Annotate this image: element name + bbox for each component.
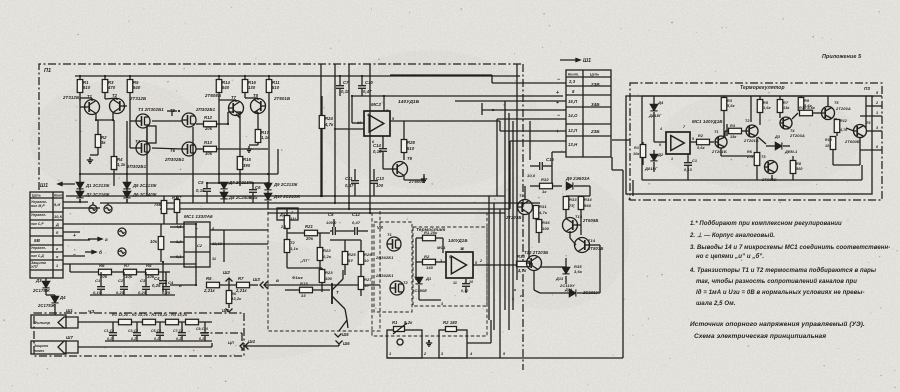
svg-text:30к: 30к	[205, 151, 213, 156]
diode D3 2S175Zh	[42, 281, 49, 287]
wire R14 column	[218, 100, 220, 183]
resistor R30 4.7k	[517, 261, 530, 267]
filter label box	[31, 315, 66, 328]
connector Sh3 arrow down	[226, 309, 233, 313]
diode D6 2S240Zh	[123, 191, 130, 197]
op-amp MC2 140UD1B	[364, 111, 390, 136]
resistor R11*	[174, 200, 180, 213]
svg-text:100: 100	[376, 183, 384, 188]
resistor R36 100	[536, 220, 542, 233]
ground below R2	[87, 157, 93, 163]
wire T1 base link	[80, 106, 86, 108]
svg-text:5В: 5В	[34, 238, 41, 243]
svg-text:2Т605Б: 2Т605Б	[761, 177, 777, 182]
resistor R19 33	[300, 287, 313, 293]
wire vertical riser x349	[348, 64, 350, 209]
svg-text:VR: VR	[377, 225, 383, 230]
block Termostat outer dashed box	[372, 213, 487, 336]
resistor R8 10k	[146, 269, 159, 275]
svg-text:Д: Д	[55, 223, 59, 227]
svg-text:ЦЛ: ЦЛ	[228, 340, 234, 345]
diode D2 D818G	[650, 154, 657, 160]
svg-text:1: 1	[671, 157, 673, 161]
svg-text:Т2: Т2	[112, 93, 118, 98]
svg-text:1,1к: 1,1к	[117, 162, 126, 167]
resistor R23 100	[319, 270, 325, 283]
wire r25 r26 top	[345, 239, 361, 241]
resistor R11* center	[284, 216, 290, 229]
svg-text:10к: 10к	[633, 152, 640, 156]
svg-text:2П302Б1: 2П302Б1	[375, 273, 394, 278]
svg-text:14,О: 14,О	[568, 113, 578, 118]
wire long 285 to thermostat	[285, 284, 380, 286]
svg-text:−: −	[557, 77, 560, 83]
svg-text:15,П: 15,П	[568, 99, 578, 104]
svg-text:12,П: 12,П	[568, 128, 578, 133]
svg-text:1.* Подбирают при комплексно: 1.* Подбирают при комплексном регулирова…	[690, 220, 842, 227]
wire bottom bus Sh4	[243, 345, 339, 347]
svg-text:С2: С2	[118, 278, 124, 283]
svg-text:Т14: Т14	[588, 238, 596, 243]
svg-text:С10: С10	[365, 80, 374, 85]
svg-text:2С175Ж: 2С175Ж	[37, 303, 56, 308]
wire mid bus a	[66, 195, 505, 197]
svg-text:УПТ: УПТ	[31, 265, 39, 269]
svg-text:2,3: 2,3	[568, 79, 576, 84]
resistor R28 510	[401, 140, 407, 153]
wire top bus P3	[642, 95, 868, 97]
svg-text:R8: R8	[796, 162, 802, 166]
diode D7 2S213Zh	[220, 182, 227, 188]
resistor R3 18.2k	[166, 319, 179, 325]
svg-text:С5,С6: С5,С6	[151, 329, 161, 333]
resistor R32 1k	[540, 183, 553, 189]
svg-text:9: 9	[659, 143, 661, 147]
transistor T2 2T201B P3	[746, 125, 758, 137]
svg-text:П3: П3	[864, 86, 870, 91]
wire to table rows lower	[529, 135, 531, 160]
resistor R2 3k	[95, 135, 101, 148]
arrow node a	[88, 237, 102, 240]
svg-text:0,47: 0,47	[345, 183, 354, 188]
svg-text:34Б: 34Б	[591, 102, 600, 107]
capacitor C15 10.0	[540, 162, 543, 170]
wire right section links	[576, 224, 581, 226]
transistor T8 2T601B	[251, 99, 266, 114]
svg-text:R10 5,6к: R10 5,6к	[799, 106, 816, 110]
svg-text:С13: С13	[376, 176, 385, 181]
svg-text:2П302Б1: 2П302Б1	[126, 164, 147, 169]
svg-text:Т7: Т7	[231, 95, 237, 100]
svg-text:0,25: 0,25	[152, 283, 161, 288]
wire r chain	[70, 271, 99, 273]
wire T4 T6 link rectangle	[147, 126, 156, 143]
transistor T7 2T608B	[229, 101, 244, 116]
svg-text:560: 560	[584, 203, 592, 208]
resistor R7 2.21k	[237, 282, 250, 288]
svg-text:Т5: Т5	[834, 101, 839, 105]
svg-text:10к: 10к	[825, 144, 831, 148]
svg-text:2,21к: 2,21к	[203, 288, 216, 293]
transistor T11 2T203B	[518, 200, 533, 215]
svg-text:Т: Т	[195, 227, 198, 232]
svg-text:Ш2: Ш2	[223, 270, 230, 275]
svg-text:510: 510	[407, 146, 415, 151]
svg-text:0,15: 0,15	[341, 89, 350, 94]
resistor R33 75	[563, 197, 569, 210]
svg-text:10,К: 10,К	[54, 215, 63, 219]
svg-text:140: 140	[426, 265, 434, 270]
svg-text:С9,С10: С9,С10	[196, 327, 208, 331]
block Termoregulator dash-dot box	[630, 83, 882, 200]
wire opamp input 2	[335, 128, 364, 130]
bypass cap tick	[481, 103, 483, 115]
svg-text:11: 11	[212, 257, 216, 261]
resistor R21 20k	[305, 230, 318, 236]
svg-text:0,13: 0,13	[684, 168, 693, 172]
svg-text:2Т201Б: 2Т201Б	[711, 149, 727, 154]
svg-text:470: 470	[107, 85, 116, 90]
svg-text:Т9: Т9	[407, 156, 413, 161]
svg-text:R6: R6	[99, 263, 105, 268]
svg-text:С1: С1	[95, 278, 101, 283]
connector table Sh1	[566, 70, 611, 157]
svg-text:11*: 11*	[290, 216, 296, 221]
svg-text:4. Транзисторы Т1 и Т2 термо: 4. Транзисторы Т1 и Т2 термостата подбир…	[689, 267, 877, 274]
wire mid bus d	[268, 212, 505, 214]
resistor R14 10k	[830, 137, 836, 150]
svg-text:Ш3: Ш3	[222, 308, 229, 313]
svg-text:100,0: 100,0	[326, 220, 337, 225]
svg-text:R1 20к: R1 20к	[424, 230, 438, 235]
svg-text:С7,С8: С7,С8	[173, 329, 183, 333]
svg-text:R36: R36	[542, 220, 550, 225]
transistor T1 2T312B	[85, 100, 100, 115]
fet T2 thermostat	[390, 281, 404, 295]
transistor T5 2T203A	[822, 107, 835, 120]
resistor R22 8.2k	[317, 248, 323, 261]
svg-text:С2: С2	[197, 244, 203, 248]
resistor R1 20k thermostat	[423, 235, 436, 241]
block boundary P1 (dash-dot frame)	[39, 64, 523, 370]
svg-text:Т6: Т6	[866, 121, 871, 125]
svg-text:2,21к: 2,21к	[235, 288, 248, 293]
svg-text:R25: R25	[348, 252, 356, 257]
capacitor C1C2 0.2	[109, 333, 117, 336]
connector Sh5 Sh6 arrows	[335, 334, 342, 338]
svg-text:С6: С6	[255, 185, 261, 190]
diode D1 2S213Zh	[76, 182, 83, 188]
svg-text:г: г	[56, 247, 58, 251]
svg-text:1: 1	[461, 247, 463, 251]
svg-text:2Т203А: 2Т203А	[835, 106, 851, 111]
wire T7 T8 emitters	[240, 112, 242, 114]
svg-text:Д818Г: Д818Г	[648, 113, 662, 118]
wire T3 T5 drain drops	[146, 127, 148, 196]
svg-text:2Т312Б: 2Т312Б	[129, 96, 146, 101]
svg-text:но с цепями „и” и „б”.: но с цепями „и” и „б”.	[696, 253, 764, 260]
resistor R3 5.6k P3	[721, 98, 727, 111]
svg-text:Т3 2П302Б1: Т3 2П302Б1	[138, 107, 164, 112]
svg-text:R4: R4	[730, 124, 736, 128]
svg-text:МС1 140УД1Б: МС1 140УД1Б	[692, 119, 722, 124]
svg-text:С3,С4: С3,С4	[128, 329, 138, 333]
wire r33 r34 top join	[566, 195, 590, 197]
wire mid bus b	[100, 202, 540, 204]
transistor T6 2T600B	[854, 125, 867, 138]
svg-text:R5: R5	[763, 101, 769, 105]
resistor R31 4.7k	[533, 206, 539, 219]
svg-text:С4: С4	[168, 280, 174, 285]
wire left drop	[641, 96, 643, 180]
svg-text:Ш1: Ш1	[66, 308, 73, 313]
svg-text:Т12 2Т203Б: Т12 2Т203Б	[524, 250, 548, 255]
svg-text:С4: С4	[154, 276, 160, 281]
wire long feed from opamp row	[390, 74, 492, 76]
wire P3 bottom pin	[632, 180, 634, 196]
wire emitter rail x240	[236, 114, 240, 118]
svg-text:R2: R2	[698, 134, 704, 138]
svg-text:R12: R12	[204, 115, 213, 120]
resistor R4 15k	[729, 128, 742, 134]
svg-text:510: 510	[272, 85, 280, 90]
svg-text:R24: R24	[325, 116, 334, 121]
svg-text:0,47: 0,47	[352, 220, 361, 225]
notes text block	[689, 220, 890, 340]
svg-text:140УД1Б: 140УД1Б	[448, 238, 468, 243]
svg-text:390: 390	[243, 163, 251, 168]
svg-text:Д9 2Э503А: Д9 2Э503А	[565, 176, 590, 181]
svg-text:4: 4	[659, 127, 662, 131]
svg-text:540: 540	[222, 85, 230, 90]
svg-text:Д14: Д14	[564, 288, 573, 292]
svg-text:Защита: Защита	[34, 344, 48, 348]
resistor R3 470	[102, 80, 108, 93]
svg-text:+: +	[73, 233, 76, 239]
wire T2 base link	[123, 105, 127, 107]
wire caps	[330, 230, 332, 232]
wire top supply rail	[75, 75, 520, 77]
capacitor C3C4 0.2	[133, 333, 141, 336]
svg-text:Ш1: Ш1	[40, 183, 48, 189]
wire c15 top	[552, 151, 566, 153]
svg-text:R19: R19	[300, 281, 308, 286]
svg-text:г1: г1	[520, 294, 524, 298]
wire sh7 line	[78, 346, 212, 348]
svg-text:13,Н: 13,Н	[568, 142, 578, 147]
svg-text:10: 10	[364, 258, 369, 263]
resistor R16 130	[242, 80, 248, 93]
svg-text:Источник опорного напряжения: Источник опорного напряжения управляемый…	[690, 320, 865, 328]
wire chip pins	[170, 226, 184, 228]
svg-text:2Т203А: 2Т203А	[789, 133, 805, 138]
wire vertical riser x335	[334, 64, 336, 203]
svg-text:Ф1мк: Ф1мк	[292, 275, 304, 280]
transistor T4 2T203A	[780, 117, 792, 129]
svg-text:Ш7: Ш7	[66, 335, 73, 340]
wire emitter down	[347, 320, 348, 328]
test point circle mid1	[118, 228, 126, 236]
svg-text:С1: С1	[692, 159, 697, 163]
resistor 75k	[161, 201, 167, 214]
svg-text:Т1: Т1	[714, 130, 719, 134]
resistor R10 5.6k	[800, 110, 813, 116]
svg-text:2Т601Б: 2Т601Б	[273, 96, 290, 101]
svg-text:−: −	[73, 252, 76, 258]
svg-text:МС1 133ЛА6: МС1 133ЛА6	[184, 214, 213, 219]
svg-text:R13: R13	[204, 140, 213, 145]
wire caps bottom rail	[105, 340, 212, 342]
svg-text:Ш5: Ш5	[342, 332, 349, 337]
svg-text:R33: R33	[569, 197, 577, 202]
svg-text:С7: С7	[343, 80, 349, 85]
wire filter to chain	[78, 321, 212, 323]
svg-text:R12: R12	[840, 119, 847, 123]
resistor R7 13k	[777, 100, 783, 113]
svg-text:Д2: Д2	[657, 152, 664, 157]
wire T9 emitter ground	[403, 175, 405, 180]
svg-text:Т2: Т2	[745, 119, 750, 123]
svg-text:0,25: 0,25	[162, 290, 171, 295]
wire to node v	[264, 284, 285, 286]
resistor R5 1.6k	[757, 100, 763, 113]
resistor R24 4.7k	[319, 116, 325, 129]
capacitor C1 0.43	[684, 163, 692, 166]
svg-text:2П302Б1: 2П302Б1	[195, 107, 216, 112]
svg-text:R9: R9	[804, 99, 810, 103]
svg-text:2Т608Б: 2Т608Б	[204, 93, 221, 98]
svg-text:шала 2,5 Ом.: шала 2,5 Ом.	[696, 301, 736, 307]
svg-text:МС1: МС1	[437, 245, 446, 250]
svg-text:Д3: Д3	[774, 135, 781, 139]
resistor R1 18.2k	[119, 319, 132, 325]
capacitor C9C10 0.2	[201, 333, 209, 336]
resistor R34 560	[578, 197, 584, 210]
svg-text:С1,С2: С1,С2	[104, 329, 114, 333]
svg-text:1: 1	[876, 111, 878, 115]
svg-text:2: 2	[479, 259, 482, 263]
resistor R4 18.2k	[186, 319, 199, 325]
svg-text:0,25: 0,25	[116, 290, 125, 295]
svg-text:20к: 20к	[204, 126, 213, 131]
svg-text:С12: С12	[352, 212, 361, 217]
svg-text:помех: помех	[34, 349, 44, 353]
wire emitter join T1 T2	[95, 113, 97, 120]
svg-text:Т2: Т2	[290, 240, 296, 245]
capacitor C2 0.25	[120, 287, 128, 290]
svg-text:10: 10	[364, 283, 369, 288]
svg-text:Т: Т	[336, 290, 339, 295]
diode D8 2S240Zh	[220, 192, 227, 198]
wire opamp out to R30	[473, 264, 516, 266]
transistor T1 2T201B P3	[715, 136, 727, 148]
capacitor C12 0.47	[355, 227, 358, 235]
svg-text:Цепь: Цепь	[32, 194, 41, 198]
svg-text:R15: R15	[243, 157, 252, 162]
svg-text:Д1 2С213Ж: Д1 2С213Ж	[85, 183, 111, 188]
resistor R9 10k	[158, 237, 164, 250]
svg-text:R26: R26	[364, 252, 372, 257]
capacitor C3 0.25	[142, 287, 150, 290]
connector Sh1 arrow	[560, 58, 580, 61]
svg-text:Д9 2С213Ж: Д9 2С213Ж	[273, 182, 299, 187]
svg-text:МС2: МС2	[371, 102, 381, 107]
wire heater pin marks	[499, 320, 501, 358]
wire rows from left table	[63, 201, 88, 203]
capacitor C13 100	[370, 181, 378, 184]
capacitor C5 0.15	[203, 189, 211, 192]
svg-text:1,1к: 1,1к	[290, 246, 299, 251]
svg-text:0,2к: 0,2к	[323, 254, 332, 259]
svg-text:0,25: 0,25	[138, 290, 147, 295]
capacitor C7C8 0.2	[178, 333, 186, 336]
transistor T2 2T312B	[110, 99, 125, 114]
svg-text:−: −	[557, 113, 560, 119]
svg-text:510: 510	[83, 85, 91, 90]
svg-text:2. ⊥ — Корпус аналоговый.: 2. ⊥ — Корпус аналоговый.	[689, 232, 775, 239]
wire diode columns to bus	[207, 182, 268, 184]
svg-text:С14: С14	[373, 143, 382, 148]
svg-text:20к: 20к	[305, 236, 314, 241]
resistor R2 140 thermostat	[423, 259, 436, 265]
svg-text:Терморегулятор: Терморегулятор	[740, 85, 785, 91]
wire opamp top pin	[383, 96, 385, 111]
svg-text:ДЕМ-1: ДЕМ-1	[784, 150, 797, 154]
svg-text:1,6к: 1,6к	[763, 106, 772, 110]
junction dots	[79, 75, 81, 77]
resistor R8 560	[790, 161, 796, 174]
diode D4 D818G	[650, 104, 657, 110]
capacitor C1 0.15	[97, 287, 105, 290]
svg-text:2,1: 2,1	[280, 225, 286, 229]
element D1 box	[277, 208, 298, 220]
resistor R6 10k	[99, 269, 112, 275]
resistor R25 5.1	[342, 252, 348, 265]
svg-text:Управле-: Управле-	[31, 213, 46, 217]
connector Sh3 chevrons	[260, 282, 264, 289]
svg-text:1: 1	[56, 264, 58, 268]
svg-text:27к: 27к	[746, 155, 754, 159]
svg-text:R1: R1	[392, 320, 398, 325]
resistor R5 540	[127, 80, 133, 93]
resistor R17 1.1k	[255, 130, 261, 143]
svg-text:140УД1Б: 140УД1Б	[398, 99, 420, 105]
wire right edge riser	[622, 170, 624, 358]
wire vertical risers right	[504, 101, 506, 310]
svg-text:ние С,Р: ние С,Р	[31, 222, 44, 226]
diode D4 2S175Zh	[51, 296, 58, 302]
ground between heaters	[426, 340, 432, 346]
wire vertical riser x321	[320, 64, 322, 196]
fet T1 thermostat	[387, 237, 401, 251]
svg-text:Т3: Т3	[761, 155, 766, 159]
svg-text:0,15: 0,15	[93, 290, 102, 295]
svg-text:R21: R21	[305, 224, 314, 229]
connector Sh7 bottom	[58, 341, 78, 353]
svg-text:так, чтобы разность сопроти: так, чтобы разность сопротивлений канало…	[696, 278, 857, 285]
diode D9 2E503A	[566, 182, 572, 189]
svg-text:R22: R22	[323, 248, 331, 253]
svg-text:100: 100	[325, 276, 333, 281]
svg-text:5У: 5У	[348, 258, 353, 263]
svg-text:3: 3	[441, 302, 443, 306]
svg-text:Т2: Т2	[403, 280, 409, 285]
svg-text:1: 1	[389, 352, 391, 356]
svg-text:R1: R1	[634, 146, 639, 150]
svg-text:10к: 10к	[147, 274, 155, 279]
wire opamp input	[352, 122, 364, 124]
svg-text:С8: С8	[328, 212, 334, 217]
